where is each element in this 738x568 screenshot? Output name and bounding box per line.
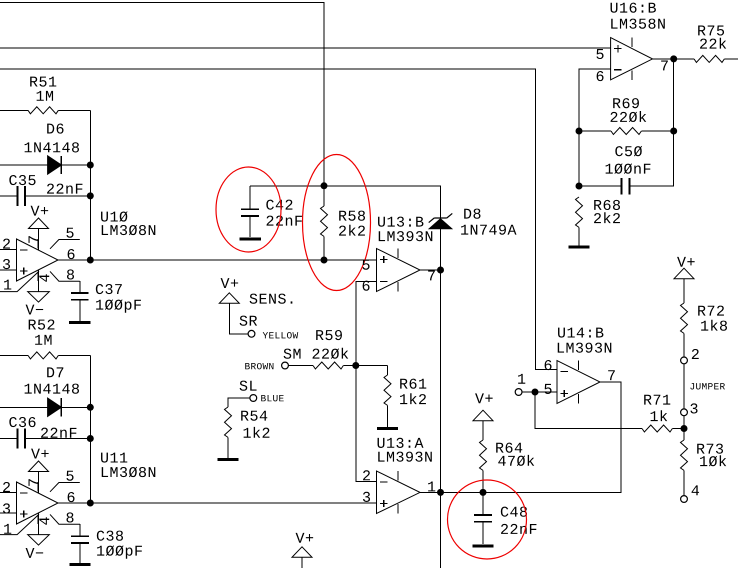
U11 pin1: [0, 514, 39, 534]
junction dot C42 node: [321, 182, 328, 189]
wire SL to R54: [228, 398, 250, 407]
op-amp U10: [17, 239, 59, 281]
junction dot R59 column: [352, 362, 359, 369]
capacitor C50: [579, 185, 622, 187]
diode D7: [0, 406, 48, 408]
resistor R52: [0, 354, 28, 356]
wire 3 to R73: [683, 416, 685, 429]
ground C42: [240, 237, 261, 240]
wire rail to U14 pin6: [0, 69, 557, 370]
U16:B pin5 label: [596, 49, 603, 59]
connector SM: [282, 362, 289, 369]
junction dot U14 pin5 node: [532, 389, 539, 396]
wire SM to R59: [288, 365, 313, 367]
resistor R72: [683, 279, 685, 303]
U11 pin6 label: [68, 492, 75, 502]
ground C37: [69, 321, 90, 324]
connector 2: [681, 357, 688, 364]
V+ R72: [674, 268, 694, 279]
U11 pin7 V+: [38, 472, 40, 494]
U10 pin3: [0, 269, 17, 271]
U11 pin4 V-: [38, 513, 40, 534]
resistor R64: [482, 421, 484, 440]
resistor R51: [0, 109, 28, 111]
junction dot C50 left: [576, 183, 583, 190]
op-amp U13:A: [377, 471, 421, 514]
wire D8 anode down comparator output bus: [440, 229, 442, 568]
wire V+ to SR: [229, 303, 248, 334]
junction dot R58 bottom: [321, 257, 328, 264]
capacitor C38: [79, 524, 81, 536]
red circle around C42: [216, 167, 281, 252]
op-amp U14:B: [557, 361, 600, 404]
wire U10 output rail to U13:B pin5: [58, 259, 377, 261]
resistor R59: [313, 362, 343, 369]
diode D6: [0, 164, 48, 166]
capacitor C42: [249, 186, 251, 209]
resistor R75: [694, 55, 724, 62]
connector SR: [248, 330, 255, 337]
ground R54: [217, 458, 238, 461]
node wire C42/R58/D8: [250, 186, 440, 218]
capacitor C36: [0, 438, 18, 440]
op-amp U11: [17, 482, 59, 524]
wire U13:B pin6 to R59/R61 node: [356, 281, 377, 365]
U16:B pin6 wire: [579, 69, 611, 186]
junction dots U13:A out: [437, 489, 444, 496]
wire jumper 2-3: [683, 364, 685, 410]
U10 pin7 V+: [38, 229, 40, 251]
ground R68: [568, 246, 589, 249]
U13:B pin5 label: [362, 260, 369, 270]
red circle around R58: [303, 155, 371, 291]
wire left rail x=90 upper: [89, 110, 91, 260]
junction dot R71/R73: [681, 425, 688, 432]
capacitor C35: [0, 195, 18, 197]
U14:B pin6 label: [545, 360, 552, 370]
V+ R64: [473, 410, 493, 421]
U10 pin1: [0, 271, 39, 291]
resistor R68: [576, 197, 583, 227]
connector 3: [681, 409, 688, 416]
op-amp U13:B: [377, 249, 421, 292]
resistor R54: [225, 407, 232, 437]
junction dots D7 C36 U11out: [87, 404, 94, 411]
connector 1 U14 input: [515, 389, 522, 396]
U10 pin2: [0, 249, 17, 251]
U10 pin5: [50, 240, 80, 249]
U13:A pin1 output: [428, 482, 435, 492]
capacitor C48: [482, 492, 484, 515]
wire U13 outputs to U14 output: [420, 382, 621, 492]
V+ bottom: [292, 547, 312, 558]
U16:B pin7 output: [653, 58, 695, 60]
U13:B pin6 label: [363, 281, 370, 291]
wire V+ bottom: [301, 557, 303, 568]
U10 pin4 V-: [38, 270, 40, 291]
U13:A pin3 label: [363, 492, 370, 502]
wire top rail to C42/R58 node: [0, 3, 324, 186]
zener diode D8: [429, 219, 452, 229]
junction dots R69: [576, 128, 583, 135]
U10 pin8: [50, 271, 80, 281]
resistor R73: [683, 429, 685, 441]
U14:B pin5 label: [544, 384, 551, 394]
resistor R58: [323, 186, 325, 206]
ground R61: [377, 427, 398, 430]
U13:B pin7 output: [420, 269, 441, 271]
ground C38: [69, 563, 90, 566]
connector 4: [681, 496, 688, 503]
wire left rail x=90 lower: [89, 355, 91, 503]
U11 pin5: [50, 483, 80, 492]
V+ SENS: [219, 293, 239, 304]
U11 pin8: [50, 514, 80, 524]
wire U14 pin5 node to R71: [522, 392, 642, 429]
resistor R61: [387, 366, 389, 376]
U11 pin3: [0, 512, 17, 514]
op-amp U16:B: [611, 38, 653, 80]
resistor R69: [579, 130, 611, 132]
capacitor C37: [79, 281, 81, 293]
U13:A pin2 label: [363, 470, 370, 480]
U10 pin6 label: [68, 249, 75, 259]
U11 pin2: [0, 492, 17, 494]
junction dot U13:B out: [437, 267, 444, 274]
junction dot U16 out: [670, 55, 677, 62]
wire R59/R61 node down to U13:A pin2: [356, 366, 377, 482]
ground C48: [472, 545, 493, 548]
junction dots D6 C35 U10out: [87, 162, 94, 169]
wire R71 to jumper column: [672, 428, 684, 430]
wire U11 output rail to U13:A pin3: [58, 502, 377, 504]
resistor R71: [642, 425, 672, 432]
red circle around C48: [448, 480, 527, 559]
connector SL: [250, 395, 257, 402]
U14:B pin7 label: [608, 370, 615, 380]
wire rail to U16 pin5: [0, 47, 611, 49]
